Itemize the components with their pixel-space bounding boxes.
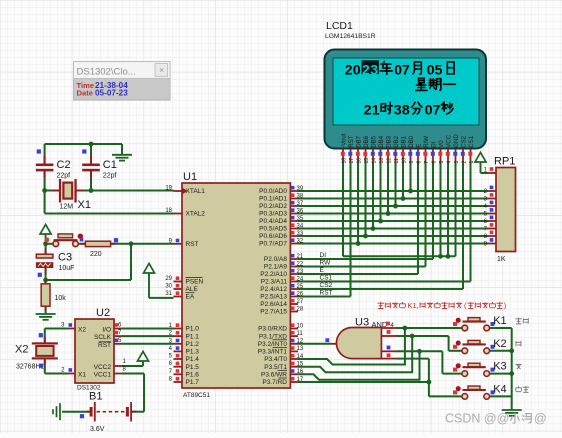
svg-text:P2.4/A12: P2.4/A12 (260, 286, 287, 293)
svg-text:29: 29 (165, 276, 172, 282)
svg-text:2: 2 (345, 61, 353, 77)
svg-text:P0.2/AD2: P0.2/AD2 (259, 203, 287, 210)
svg-text:RST: RST (348, 135, 355, 147)
svg-text:3.6V: 3.6V (90, 426, 105, 433)
svg-text:CS1: CS1 (320, 275, 333, 282)
svg-text:B1: B1 (89, 391, 102, 403)
svg-text:VCC2: VCC2 (94, 364, 112, 371)
svg-text:22pf: 22pf (57, 173, 71, 180)
svg-text:36: 36 (297, 208, 304, 214)
svg-text:EA: EA (186, 294, 195, 301)
svg-text:XTAL2: XTAL2 (186, 211, 206, 218)
svg-text:P0.1/AD1: P0.1/AD1 (259, 196, 287, 203)
svg-text:7: 7 (433, 101, 441, 117)
svg-text:37: 37 (297, 201, 304, 207)
svg-text:26: 26 (297, 291, 304, 297)
svg-text:R/W: R/W (423, 136, 430, 148)
svg-text:DI: DI (431, 141, 438, 147)
svg-text:12: 12 (386, 158, 392, 164)
svg-text:DS1302: DS1302 (77, 384, 101, 391)
svg-text:15: 15 (297, 362, 304, 368)
svg-text:P2.5/A13: P2.5/A13 (260, 294, 287, 301)
svg-text:15: 15 (364, 158, 370, 164)
svg-text:0: 0 (425, 101, 433, 117)
svg-text:K2: K2 (493, 338, 506, 350)
svg-text:P1.7: P1.7 (186, 379, 200, 386)
svg-text:P1.2: P1.2 (186, 341, 200, 348)
svg-text:24: 24 (297, 276, 304, 282)
svg-text:P3.7/RD: P3.7/RD (262, 379, 287, 386)
svg-text:0: 0 (394, 61, 402, 77)
svg-text:C3: C3 (58, 252, 72, 264)
svg-text:7: 7 (424, 161, 430, 164)
svg-text:10k: 10k (55, 295, 67, 302)
svg-text:PSEN: PSEN (186, 279, 204, 286)
svg-text:11: 11 (297, 331, 304, 337)
svg-text:U3: U3 (355, 317, 369, 329)
svg-text:RST: RST (98, 342, 111, 349)
svg-text:P0.6/AD6: P0.6/AD6 (259, 233, 287, 240)
svg-text:18: 18 (165, 208, 172, 214)
svg-text:DB6: DB6 (363, 135, 370, 147)
svg-text:2: 2 (362, 61, 370, 77)
svg-text:3: 3 (454, 161, 460, 164)
svg-text:32: 32 (297, 238, 304, 244)
svg-text:P2.0/A8: P2.0/A8 (264, 256, 288, 263)
svg-text:E: E (416, 144, 423, 148)
svg-text:LCD1: LCD1 (326, 20, 353, 32)
svg-text:25: 25 (297, 284, 304, 290)
svg-text:VCC1: VCC1 (94, 372, 112, 379)
svg-text:DB2: DB2 (393, 135, 400, 147)
svg-text:3: 3 (394, 101, 402, 117)
svg-text:DB7: DB7 (356, 135, 363, 147)
svg-text:-Vout: -Vout (341, 133, 348, 148)
svg-text:10: 10 (297, 323, 304, 329)
svg-text:4: 4 (446, 161, 452, 164)
svg-text:13: 13 (379, 158, 385, 164)
svg-text:CSDN @@: CSDN @@ (445, 412, 509, 426)
svg-text:220: 220 (90, 251, 102, 258)
svg-text:7: 7 (402, 61, 410, 77)
svg-text:Date: Date (77, 88, 93, 97)
svg-text:P0.7/AD7: P0.7/AD7 (259, 241, 287, 248)
svg-text:16: 16 (297, 369, 304, 375)
svg-text:30: 30 (165, 284, 172, 290)
svg-text:U2: U2 (96, 307, 110, 319)
svg-text:10uF: 10uF (59, 265, 75, 272)
svg-text:0: 0 (353, 61, 361, 77)
svg-text:22pf: 22pf (103, 173, 117, 180)
svg-text:21: 21 (297, 254, 304, 260)
svg-text:AT89C51: AT89C51 (183, 392, 210, 399)
svg-text:DB5: DB5 (371, 135, 378, 147)
svg-text:K1: K1 (493, 315, 506, 327)
svg-text:38: 38 (297, 193, 304, 199)
svg-text:XTAL1: XTAL1 (186, 188, 206, 195)
svg-text:X2: X2 (78, 327, 86, 334)
svg-text:P1.0: P1.0 (186, 326, 200, 333)
svg-text:K1,: K1, (408, 301, 419, 310)
svg-text:28: 28 (297, 306, 304, 312)
svg-text:1K: 1K (497, 256, 506, 263)
svg-text:31: 31 (165, 291, 172, 297)
svg-text:P3.2/INT0: P3.2/INT0 (258, 341, 288, 348)
svg-text:11: 11 (394, 158, 400, 163)
svg-text:P0.4/AD4: P0.4/AD4 (259, 218, 287, 225)
svg-text:P1.6: P1.6 (186, 372, 200, 379)
svg-text:ALE: ALE (186, 286, 199, 293)
svg-text:K3: K3 (493, 361, 506, 373)
svg-text:AND: AND (372, 320, 388, 329)
svg-text:34: 34 (297, 223, 304, 229)
svg-text:P2.1/A9: P2.1/A9 (264, 264, 288, 271)
svg-text:17: 17 (349, 158, 355, 164)
svg-text:X1: X1 (78, 372, 86, 379)
svg-text:05-07-23: 05-07-23 (95, 88, 128, 97)
svg-text:23: 23 (297, 269, 304, 275)
svg-text:DB0: DB0 (408, 135, 415, 147)
svg-text:1: 1 (469, 161, 475, 164)
svg-text:P0.5/AD5: P0.5/AD5 (259, 226, 287, 233)
svg-text:V0: V0 (438, 140, 445, 148)
svg-text:C2: C2 (57, 159, 71, 171)
svg-text:GND: GND (453, 134, 460, 148)
svg-text:22: 22 (297, 261, 304, 267)
svg-text:RP1: RP1 (494, 156, 515, 168)
svg-text:DB3: DB3 (386, 135, 393, 147)
svg-text:I/O: I/O (102, 327, 111, 334)
svg-text:39: 39 (297, 186, 304, 192)
svg-text:12: 12 (297, 339, 304, 345)
svg-text:12M: 12M (60, 204, 74, 211)
svg-text:P0.3/AD3: P0.3/AD3 (259, 211, 287, 218)
svg-text:P2.2/A10: P2.2/A10 (260, 271, 287, 278)
svg-text:K4: K4 (493, 383, 506, 395)
svg-text:5: 5 (435, 61, 443, 77)
svg-text:9: 9 (409, 161, 415, 164)
svg-text:P3.4/T0: P3.4/T0 (264, 356, 287, 363)
svg-text:P3.6/WR: P3.6/WR (261, 372, 287, 379)
svg-text:2: 2 (364, 101, 372, 117)
svg-text:3: 3 (370, 61, 378, 77)
svg-text:DS1302\Clo...: DS1302\Clo... (77, 67, 136, 78)
svg-text:1: 1 (372, 101, 380, 117)
svg-text:C1: C1 (103, 159, 117, 171)
svg-text:X2: X2 (15, 344, 28, 356)
svg-text:DB1: DB1 (401, 135, 408, 147)
svg-text:P1.4: P1.4 (186, 356, 200, 363)
svg-text:14: 14 (297, 354, 304, 360)
svg-text:P3.5/T1: P3.5/T1 (264, 364, 287, 371)
svg-text:P1.5: P1.5 (186, 364, 200, 371)
svg-text:27: 27 (297, 299, 304, 305)
svg-text:×: × (159, 65, 164, 75)
svg-text:RST: RST (186, 241, 199, 248)
svg-text:CS1: CS1 (468, 135, 475, 147)
svg-text:19: 19 (165, 186, 172, 192)
svg-text:8: 8 (402, 101, 410, 117)
svg-text:SCLK: SCLK (94, 334, 112, 341)
svg-text:P1.1: P1.1 (186, 333, 200, 340)
svg-text:E: E (320, 267, 325, 274)
svg-text:P2.6/A14: P2.6/A14 (260, 301, 287, 308)
svg-text:X1: X1 (78, 199, 91, 211)
svg-text:P1.3: P1.3 (186, 349, 200, 356)
svg-text:P3.0/RXD: P3.0/RXD (258, 326, 287, 333)
svg-text:RW: RW (320, 260, 332, 267)
svg-text:P0.0/AD0: P0.0/AD0 (259, 188, 287, 195)
svg-text:P3.3/INT1: P3.3/INT1 (258, 349, 288, 356)
svg-text:U1: U1 (183, 171, 197, 183)
svg-text:0: 0 (427, 61, 435, 77)
svg-text:CS2: CS2 (461, 135, 468, 147)
svg-text:16: 16 (356, 158, 362, 164)
svg-text:18: 18 (341, 158, 347, 164)
svg-text:P2.3/A11: P2.3/A11 (261, 279, 288, 286)
svg-text:P3.1/TXD: P3.1/TXD (259, 333, 287, 340)
svg-text:6: 6 (431, 161, 437, 164)
svg-text:17: 17 (297, 377, 304, 383)
svg-text:14: 14 (371, 158, 377, 164)
svg-text:DI: DI (320, 252, 327, 259)
svg-text:13: 13 (297, 346, 304, 352)
svg-text:DB4: DB4 (378, 135, 385, 147)
svg-text:35: 35 (297, 216, 304, 222)
svg-text:CS2: CS2 (320, 282, 333, 289)
svg-text:33: 33 (297, 231, 304, 237)
svg-text:8: 8 (416, 161, 422, 164)
svg-text:2: 2 (461, 161, 467, 164)
svg-text:@: @ (534, 412, 547, 426)
svg-text:LGM12641BS1R: LGM12641BS1R (325, 33, 376, 40)
svg-text:5: 5 (439, 161, 445, 164)
svg-text:P2.7/A15: P2.7/A15 (260, 309, 287, 316)
svg-text:RST: RST (320, 290, 333, 297)
svg-text:VCC: VCC (446, 134, 453, 147)
svg-text:10: 10 (401, 158, 407, 164)
